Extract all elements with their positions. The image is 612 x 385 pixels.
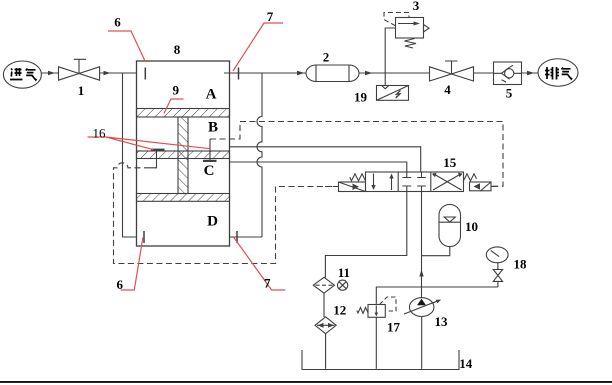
wire cooler 12 to tank <box>325 334 327 369</box>
svg-text:10: 10 <box>465 219 478 234</box>
flow arrow up <box>419 270 423 277</box>
muffler 2 <box>306 65 359 82</box>
exhaust port ellipse 排气 <box>538 59 578 87</box>
pilot dashed C-port to valve 15 right solenoid <box>210 122 503 187</box>
flow arrow <box>48 71 55 75</box>
valve 15 left position arrows <box>374 174 392 191</box>
relief valve 17 <box>368 305 385 318</box>
filter 11 <box>313 277 334 293</box>
port tick bottom-right <box>236 231 238 243</box>
svg-text:7: 7 <box>267 9 274 24</box>
flow arrow <box>104 71 111 75</box>
svg-text:B: B <box>208 120 218 136</box>
shutoff valve 4 <box>430 67 452 81</box>
valve 15 right position crossed arrows <box>433 174 462 191</box>
svg-text:4: 4 <box>444 82 451 97</box>
glyph 排 <box>545 67 559 80</box>
svg-text:7: 7 <box>264 276 271 291</box>
relief valve 3 <box>396 18 424 39</box>
pump 13 <box>409 298 434 317</box>
svg-text:6: 6 <box>117 277 124 292</box>
wire junction to relief valve 3 <box>385 28 395 73</box>
intake port ellipse 进气 <box>3 61 41 88</box>
svg-text:15: 15 <box>443 155 457 170</box>
lightning symbol <box>396 91 401 98</box>
valve 15 center position closed ports <box>402 172 411 192</box>
wire filter 11 to 12 <box>323 293 325 317</box>
svg-text:1: 1 <box>78 83 85 98</box>
svg-text:A: A <box>206 87 217 103</box>
leader label 6 (bottom) <box>121 238 143 291</box>
relief valve 17 branch wire <box>376 287 498 305</box>
spring of valve 3 <box>405 39 417 49</box>
wire B-port to valve 15 <box>230 147 421 172</box>
clog indicator of filter 11 <box>338 280 348 290</box>
svg-text:14: 14 <box>459 356 473 371</box>
piston 9 (A/B) <box>137 109 230 118</box>
svg-text:12: 12 <box>333 303 346 318</box>
valve 15 right solenoid <box>470 182 492 191</box>
svg-text:11: 11 <box>338 265 350 280</box>
wire left bypass pipe down <box>123 73 137 237</box>
wire valve 17 to tank <box>375 317 377 369</box>
glyph 气 (intake) <box>26 69 37 81</box>
leader label 9 <box>164 99 184 114</box>
svg-text:16: 16 <box>93 126 107 141</box>
svg-text:5: 5 <box>506 86 513 101</box>
pressure wire pump to valve 15 <box>421 192 423 298</box>
wire pump to tank <box>421 317 423 369</box>
page bottom rule <box>0 381 612 383</box>
svg-text:3: 3 <box>413 0 420 13</box>
wire cylinder outlet (top right) to muffler 2 <box>224 72 306 74</box>
valve 15 left lead dashed <box>325 186 339 188</box>
flow arrow <box>297 71 305 75</box>
leader label 16 (two lines) <box>88 137 210 150</box>
piston C/D <box>137 194 230 202</box>
valve 15 left spring <box>350 174 366 181</box>
svg-text:2: 2 <box>323 50 330 65</box>
pilot dashed B-port to valve 15 left solenoid <box>114 163 339 264</box>
wire valve 4 to filter 5 <box>474 72 494 74</box>
return wire valve 15 to filters <box>325 192 406 278</box>
check filter 5 <box>494 62 522 85</box>
svg-text:6: 6 <box>114 15 121 30</box>
pressure gauge 18 <box>486 247 508 263</box>
port tick top-left <box>144 68 146 80</box>
glyph 气 (exhaust) <box>562 68 573 80</box>
valve 15 right spring <box>464 174 477 181</box>
wire accumulator to pump line <box>422 247 450 256</box>
piston rod <box>178 117 188 194</box>
svg-text:8: 8 <box>174 42 181 57</box>
svg-text:17: 17 <box>387 320 401 335</box>
glyph 进 <box>10 68 23 80</box>
spring of valve 17 <box>357 308 368 314</box>
port 16 right: stem through piston, bar below <box>209 139 211 160</box>
pilot dashed of valve 17 <box>380 297 397 311</box>
pilot dashed of valve 3 <box>384 13 409 26</box>
wire muffler to valve 4 <box>359 72 430 74</box>
pressure sensor 19 <box>377 86 409 101</box>
valve 15 right lead <box>491 185 498 187</box>
accumulator 10 <box>439 204 461 246</box>
port tick top-right <box>238 68 240 80</box>
flow arrow <box>365 71 373 75</box>
port 16 left: bar on piston top and channel <box>151 149 165 151</box>
wire bottom-right port <box>230 236 263 238</box>
svg-text:19: 19 <box>354 90 368 105</box>
valve 15 left solenoid <box>339 182 366 192</box>
svg-text:18: 18 <box>514 256 528 271</box>
wire valve1 to cylinder <box>100 72 137 74</box>
flow arrow <box>527 71 535 75</box>
cylinder 8 body <box>137 61 230 246</box>
svg-text:D: D <box>207 213 218 229</box>
bypass wire outlet-to-D vertical with hop-overs <box>257 73 262 237</box>
leader label 7 (top) <box>233 23 283 71</box>
svg-text:9: 9 <box>172 83 179 98</box>
wire intake to valve 1 <box>42 72 59 74</box>
cooler 12 <box>315 317 336 334</box>
piston B/C <box>137 151 230 159</box>
pressure sensor 19 wire <box>384 73 386 86</box>
port tick bottom-left <box>143 231 145 243</box>
directional valve 15 body <box>366 172 464 192</box>
gauge isolation valve <box>493 270 502 276</box>
tank 14 <box>302 350 459 370</box>
wire C-port to valve 15 <box>230 162 407 172</box>
shutoff valve 1 <box>59 67 80 80</box>
wire filter 5 to exhaust <box>522 72 539 74</box>
leader label 7 (bottom) <box>234 238 285 291</box>
svg-text:C: C <box>204 163 215 179</box>
leader label 6 (top) <box>108 31 146 62</box>
svg-text:13: 13 <box>435 314 449 329</box>
